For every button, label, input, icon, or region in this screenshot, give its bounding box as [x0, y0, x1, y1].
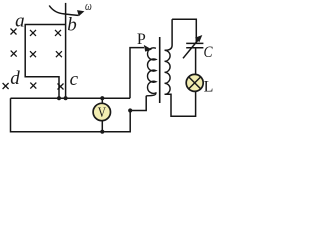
svg-text:V: V: [98, 105, 106, 121]
svg-text:P: P: [137, 31, 146, 48]
svg-text:C: C: [204, 44, 213, 61]
svg-text:b: b: [67, 15, 77, 36]
svg-text:ω: ω: [85, 0, 92, 13]
svg-text:L: L: [204, 79, 214, 96]
svg-text:d: d: [10, 68, 20, 89]
svg-text:c: c: [70, 69, 79, 90]
svg-text:a: a: [15, 10, 25, 31]
